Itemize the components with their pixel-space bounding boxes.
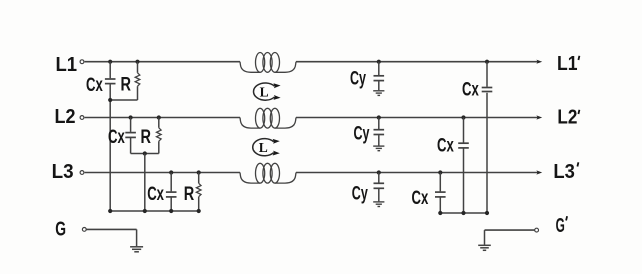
- svg-text:Cy: Cy: [354, 124, 370, 145]
- resistor R1 top stem: [137, 62, 139, 73]
- wire L2 left segment: [85, 117, 240, 119]
- junction dot L3 / Cy3: [377, 170, 381, 174]
- capacitor Cx3 stem upper: [170, 173, 172, 192]
- wire G: [87, 228, 137, 230]
- capacitor Cy2 stem lower: [378, 135, 380, 146]
- ground of Cy1: [373, 90, 384, 92]
- wire pair2 bottom bar: [131, 153, 159, 155]
- capacitor Cy2: [374, 129, 385, 131]
- wire pair1 bottom bar: [110, 99, 137, 101]
- ground G: [130, 246, 143, 248]
- svg-text:L2: L2: [557, 106, 577, 129]
- choke winding L (phase 2): [240, 118, 260, 129]
- terminal L1 (input): [80, 60, 84, 64]
- wire pair2 down to star bus: [144, 154, 146, 212]
- wire L3 right segment: [296, 172, 538, 174]
- svg-text:L1: L1: [56, 53, 78, 76]
- wire star bus (left): [110, 210, 200, 212]
- choke winding L (phase 1): [240, 62, 260, 73]
- capacitor Cy3 stem upper: [378, 173, 380, 183]
- wire G drop: [136, 229, 138, 246]
- wire G' drop: [484, 230, 486, 245]
- wire L2 right segment: [296, 117, 538, 119]
- capacitor Cx2: [125, 132, 136, 134]
- wire Cx1 down to star bus: [109, 84, 111, 211]
- junction dot bus/CxR1: [485, 211, 489, 215]
- ground of Cy2: [373, 145, 384, 147]
- resistor R2 top stem: [158, 118, 160, 128]
- junction dot L3 / Cx3: [169, 170, 173, 174]
- capacitor Cy1: [374, 75, 385, 77]
- capacitor Cx right3 stem upper: [439, 173, 441, 192]
- junction dot L3 / R3: [197, 170, 201, 174]
- wire star bus (right): [440, 212, 488, 214]
- capacitor Cy3: [374, 182, 385, 184]
- svg-text:Cx: Cx: [437, 135, 454, 156]
- junction dot bus/Cx3: [169, 209, 173, 213]
- capacitor Cy1 stem upper: [378, 62, 380, 75]
- arrowhead L2' end: [536, 115, 542, 119]
- capacitor Cy2 stem upper: [378, 118, 380, 130]
- svg-text:L: L: [259, 140, 268, 155]
- coupling arrow with label L (between windings 1-2): [254, 83, 275, 100]
- junction dot bus/CxR2: [461, 211, 465, 215]
- svg-text:Cy: Cy: [350, 68, 366, 89]
- junction dot L2 / R2: [157, 115, 161, 119]
- capacitor Cx right3: [435, 191, 446, 193]
- terminal G (input): [82, 228, 86, 232]
- svg-text:R: R: [121, 75, 132, 96]
- wire L1 left segment: [85, 61, 240, 63]
- ground G': [478, 244, 491, 246]
- wire L3 left segment: [85, 172, 240, 174]
- capacitor Cy3 stem lower: [378, 189, 380, 202]
- junction dot L3 / Cx right3: [438, 170, 442, 174]
- junction dot bus/pair2: [143, 209, 147, 213]
- arrowhead L1' end: [536, 60, 542, 64]
- arrowhead L3' end: [536, 170, 542, 174]
- terminal L3 (input): [80, 171, 84, 175]
- svg-text:Cx: Cx: [412, 188, 429, 209]
- resistor R2: [157, 128, 162, 141]
- junction dot pair2 bottom: [143, 151, 147, 155]
- wire L1 right segment: [296, 61, 538, 63]
- capacitor Cx3: [166, 191, 177, 193]
- svg-text:G: G: [556, 214, 565, 237]
- junction dot bus/CxR3: [438, 211, 442, 215]
- svg-text:G: G: [55, 217, 66, 240]
- capacitor Cx1: [105, 78, 116, 80]
- svg-text:R: R: [184, 184, 195, 205]
- capacitor Cy1 stem lower: [378, 81, 380, 90]
- junction dot bus/R3: [197, 209, 201, 213]
- junction dot L1 / Cy1: [377, 60, 381, 64]
- svg-text:Cx: Cx: [86, 75, 103, 96]
- junction dot bus/Cx1: [108, 209, 112, 213]
- junction dot L1 / R1: [135, 60, 139, 64]
- capacitor Cx3 stem lower: [170, 198, 172, 212]
- coupling arrow with label L (between windings 2-3): [253, 139, 274, 156]
- capacitor Cx2 stem lower: [130, 138, 132, 154]
- resistor R2 bottom stem: [158, 141, 160, 153]
- resistor R3 bottom stem: [198, 197, 200, 211]
- junction dot L1 / Cx1: [108, 60, 112, 64]
- capacitor Cx right2 stem upper: [463, 118, 465, 143]
- svg-text:R: R: [141, 127, 152, 148]
- svg-text:L3: L3: [553, 160, 575, 183]
- resistor R1: [135, 73, 140, 86]
- svg-text:L2: L2: [55, 105, 76, 128]
- wire Cx right2 down to bus: [463, 149, 465, 214]
- svg-text:L: L: [260, 84, 269, 99]
- terminal G' (output): [535, 228, 539, 232]
- svg-text:Cx: Cx: [147, 184, 164, 205]
- choke winding L (phase 3): [240, 173, 260, 184]
- svg-text:Cx: Cx: [108, 127, 125, 148]
- capacitor Cx right1 stem upper: [486, 62, 488, 87]
- capacitor Cx1 stem upper: [109, 62, 111, 79]
- wire Cx right3 down to bus: [439, 198, 441, 214]
- junction dot L1 / Cx right1: [485, 60, 489, 64]
- capacitor Cx right1: [482, 87, 493, 89]
- wire G': [485, 229, 535, 231]
- capacitor Cx2 stem upper: [130, 118, 132, 132]
- resistor R3: [196, 183, 201, 196]
- svg-text:L1: L1: [557, 52, 578, 75]
- junction dot L2 / Cx2: [129, 115, 133, 119]
- svg-text:Cx: Cx: [462, 79, 479, 100]
- svg-text:L3: L3: [52, 160, 74, 183]
- resistor R1 bottom stem: [137, 86, 139, 100]
- junction dot L2 / Cy2: [377, 115, 381, 119]
- junction dot pair1 bottom: [108, 98, 112, 102]
- capacitor Cx right2: [458, 142, 469, 144]
- ground of Cy3: [373, 201, 384, 203]
- svg-text:Cy: Cy: [352, 184, 368, 205]
- terminal L2 (input): [80, 116, 84, 120]
- wire Cx right1 down to bus: [486, 93, 488, 213]
- resistor R3 top stem: [198, 173, 200, 184]
- junction dot L2 / Cx right2: [461, 115, 465, 119]
